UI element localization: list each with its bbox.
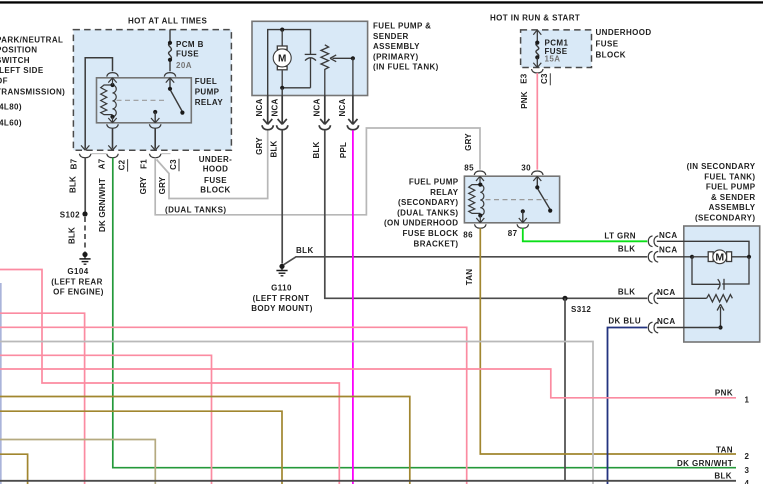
svg-text:NCA: NCA	[657, 317, 676, 326]
fuel pump relay box U1	[97, 78, 192, 123]
svg-text:OF: OF	[0, 76, 8, 85]
connector label C3	[540, 73, 550, 85]
wire PNK ladder 3	[0, 327, 467, 484]
svg-text:NCA: NCA	[659, 245, 678, 254]
svg-text:(4L60): (4L60)	[0, 119, 22, 128]
svg-text:GRY: GRY	[255, 137, 264, 155]
svg-text:NCA: NCA	[338, 99, 347, 117]
svg-text:C3: C3	[169, 159, 178, 170]
svg-text:C2: C2	[117, 159, 126, 170]
connector arcs above relay2 (pins 85, 30)	[474, 171, 543, 175]
svg-text:PNK: PNK	[715, 389, 733, 398]
svg-text:NCA: NCA	[271, 99, 280, 117]
relay coil (primary)	[101, 83, 117, 119]
wire TAN ladder 2	[0, 411, 282, 484]
svg-text:TRANSMISSION): TRANSMISSION)	[0, 87, 65, 96]
splice node S102	[60, 210, 88, 219]
svg-text:E3: E3	[520, 73, 529, 84]
svg-text:NCA: NCA	[659, 231, 678, 240]
svg-text:NCA: NCA	[657, 288, 676, 297]
svg-text:(LEFT FRONT: (LEFT FRONT	[253, 294, 310, 303]
svg-text:(ON UNDERHOOD: (ON UNDERHOOD	[384, 219, 459, 228]
svg-text:FUSE: FUSE	[176, 50, 199, 59]
svg-text:HOT IN RUN & START: HOT IN RUN & START	[490, 14, 580, 23]
svg-text:M: M	[278, 54, 286, 65]
connector arc below PCM1 fuse block	[532, 69, 544, 73]
svg-text:B7: B7	[69, 158, 78, 169]
capacitor C1 (primary pump)	[305, 54, 317, 87]
internal wire row2 to motor negative	[657, 255, 694, 259]
ground G104	[79, 252, 90, 264]
label G110 (LEFT FRONT BODY MOUNT)	[251, 284, 313, 314]
wire BLK B7 to S102	[84, 158, 86, 212]
svg-text:4: 4	[745, 479, 750, 484]
motor M1 (primary pump)	[273, 30, 291, 88]
svg-text:UNDERHOOD: UNDERHOOD	[596, 28, 652, 37]
pin arrows + arcs at relay1 bottom	[107, 117, 161, 149]
top border frame line	[0, 1, 763, 3]
svg-text:BLK: BLK	[714, 471, 732, 480]
svg-text:BODY MOUNT): BODY MOUNT)	[251, 304, 313, 313]
svg-text:GRY: GRY	[158, 176, 167, 194]
svg-text:BLK: BLK	[312, 141, 321, 158]
svg-text:15A: 15A	[545, 55, 561, 64]
svg-text:POSITION: POSITION	[0, 46, 37, 55]
wire BLK pump1 sender low to S312 and secondary pump (row 3)	[325, 130, 648, 298]
svg-text:BLOCK: BLOCK	[200, 186, 230, 195]
svg-text:HOT AT ALL TIMES: HOT AT ALL TIMES	[128, 17, 208, 26]
svg-text:BRACKET): BRACKET)	[414, 239, 459, 248]
wire PNK to right edge terminal 1	[0, 369, 736, 398]
svg-text:PPL: PPL	[339, 142, 348, 158]
wire BLK pump1 motor negative to G110	[281, 130, 283, 263]
relay2 internal dashed line	[486, 199, 549, 201]
svg-text:ASSEMBLY: ASSEMBLY	[709, 203, 756, 212]
fuel level sender resistor (secondary)	[657, 295, 733, 302]
fuel pump relay secondary box U2	[464, 176, 559, 223]
svg-text:DK GRN/WHT: DK GRN/WHT	[98, 178, 107, 232]
label PCM B FUSE 20A	[176, 40, 204, 70]
label PCM1 FUSE 15A	[545, 39, 569, 64]
svg-text:BLK: BLK	[618, 245, 636, 254]
wire SILVER ladder	[0, 342, 593, 484]
label PARK/NEUTRAL POSITION SWITCH block	[0, 36, 65, 128]
fuel level sender resistor (primary)	[321, 45, 329, 96]
pin arrows at relay2 bottom (86, 87)	[476, 216, 527, 223]
svg-text:FUEL TANK): FUEL TANK)	[704, 172, 755, 181]
wire DK BLU row4 connector arcs	[648, 322, 658, 333]
svg-text:RELAY: RELAY	[430, 188, 459, 197]
connector label C3	[169, 159, 179, 171]
svg-text:M: M	[715, 251, 724, 263]
label FUEL PUMP RELAY (SECONDARY) ...	[384, 178, 459, 249]
svg-text:OF ENGINE): OF ENGINE)	[53, 288, 104, 297]
svg-text:(4L80): (4L80)	[0, 103, 22, 112]
svg-text:BLK: BLK	[69, 176, 78, 193]
connector arcs below relay2	[475, 224, 529, 228]
svg-text:(SECONDARY): (SECONDARY)	[398, 198, 459, 207]
wire BLK row3 connector arcs	[648, 293, 658, 304]
svg-text:DK GRN/WHT: DK GRN/WHT	[677, 459, 733, 468]
sender wiper arrow (primary)	[330, 55, 355, 96]
svg-text:85: 85	[464, 164, 474, 173]
pin arrows at relay1 top	[108, 78, 174, 85]
label UNDER- HOOD FUSE BLOCK	[199, 155, 233, 195]
svg-text:(LEFT REAR: (LEFT REAR	[51, 277, 103, 286]
svg-text:(DUAL TANKS): (DUAL TANKS)	[397, 208, 458, 217]
wire PPL pump1 sender signal down off page	[352, 130, 354, 484]
underhood fuse block (right, dashed)	[521, 30, 592, 68]
sender wiper arrow (secondary)	[717, 304, 724, 329]
svg-text:FUEL PUMP &: FUEL PUMP &	[373, 22, 431, 31]
svg-text:HOOD: HOOD	[203, 165, 229, 174]
svg-text:SENDER: SENDER	[373, 32, 409, 41]
underhood fuse block (left, dashed)	[73, 30, 231, 151]
svg-text:FUEL: FUEL	[195, 77, 218, 86]
fuse PCM B 20A	[168, 30, 172, 72]
fuel pump & sender assembly secondary box	[684, 226, 760, 342]
wire BLK row2 connector arcs	[648, 251, 658, 262]
svg-text:20A: 20A	[176, 61, 192, 70]
svg-text:PARK/NEUTRAL: PARK/NEUTRAL	[0, 36, 63, 45]
fuel pump & sender assembly primary box	[252, 21, 368, 95]
wire PNK ladder 2	[0, 313, 85, 484]
svg-text:F1: F1	[139, 159, 148, 169]
splice node S312	[562, 296, 591, 314]
connector arcs row1 LT GRN / NCA	[648, 236, 658, 247]
svg-text:TAN: TAN	[716, 445, 733, 454]
wire LT GRN pin 87 to secondary pump	[523, 228, 648, 241]
svg-text:C3: C3	[540, 73, 549, 84]
svg-text:FUSE: FUSE	[204, 176, 227, 185]
relay switch (primary)	[153, 78, 184, 123]
svg-text:TAN: TAN	[465, 269, 474, 285]
relay coil (secondary)	[469, 183, 484, 218]
svg-text:G104: G104	[67, 267, 88, 276]
svg-text:(DUAL TANKS): (DUAL TANKS)	[165, 206, 226, 215]
label FUEL PUMP & SENDER ASSEMBLY (PRIMARY) (IN FUEL TANK)	[373, 22, 439, 72]
svg-text:BLOCK: BLOCK	[596, 50, 626, 59]
svg-text:(IN SECONDARY: (IN SECONDARY	[687, 162, 756, 171]
motor M2 (secondary pump)	[692, 250, 751, 264]
svg-text:ASSEMBLY: ASSEMBLY	[373, 42, 420, 51]
svg-text:BLK: BLK	[68, 227, 77, 244]
wire DK GRN/WHT A7 down and to right edge terminal 3	[113, 158, 736, 468]
svg-text:NCA: NCA	[255, 99, 264, 117]
wire PNK ladder 1	[0, 270, 339, 484]
svg-text:30: 30	[521, 164, 531, 173]
svg-text:FUEL PUMP: FUEL PUMP	[409, 178, 459, 187]
svg-text:FUSE: FUSE	[596, 40, 619, 49]
label (IN SECONDARY FUEL TANK) FUEL PUMP & SENDER ASSEMBLY (SECONDARY)	[687, 162, 756, 223]
svg-text:G110: G110	[271, 284, 292, 293]
relay internal dashed line	[117, 99, 167, 101]
pump1 wire stubs below box with arrows and connector arcs	[262, 96, 359, 130]
svg-text:(SECONDARY): (SECONDARY)	[695, 214, 756, 223]
svg-text:GRY: GRY	[464, 133, 473, 151]
svg-text:RELAY: RELAY	[195, 98, 224, 107]
svg-text:BLK: BLK	[270, 140, 279, 157]
wire TAN light ladder 3	[0, 440, 155, 484]
wire BLK dashed S102 to G104	[84, 217, 86, 252]
ground G110	[276, 264, 287, 276]
connector label C2	[117, 159, 127, 171]
svg-text:S312: S312	[571, 305, 591, 314]
label FUEL PUMP RELAY	[195, 77, 224, 107]
svg-text:FUEL PUMP: FUEL PUMP	[706, 183, 756, 192]
wire BLK S312 down to bottom bus	[564, 298, 566, 481]
wire PNK ladder 4	[0, 355, 212, 484]
svg-text:86: 86	[463, 230, 473, 239]
svg-text:DK BLU: DK BLU	[608, 317, 641, 326]
svg-text:S102: S102	[60, 210, 80, 219]
connector arcs above relay1	[107, 73, 176, 77]
wire GRY F1 diagonal branch to primary pump	[157, 130, 268, 198]
svg-text:PUMP: PUMP	[195, 87, 220, 96]
internal wire row1 to motor positive	[657, 241, 749, 256]
fuse PCM1 15A	[533, 30, 541, 68]
svg-text:SWITCH: SWITCH	[0, 56, 30, 65]
wire LAVENDER vertical off-page	[0, 283, 2, 484]
svg-text:1: 1	[745, 395, 750, 404]
wire PNK fuse to relay pin 30	[536, 73, 538, 170]
internal wire pump1 bottom bus	[280, 86, 310, 96]
relay switch (secondary)	[521, 176, 553, 223]
label UNDERHOOD FUSE BLOCK	[596, 28, 652, 59]
internal wire pump1 top bus	[268, 28, 311, 96]
svg-text:NCA: NCA	[312, 99, 321, 117]
svg-text:LT GRN: LT GRN	[604, 232, 636, 241]
svg-text:& SENDER: & SENDER	[711, 193, 756, 202]
svg-text:PCM B: PCM B	[176, 40, 204, 49]
svg-text:2: 2	[745, 452, 750, 461]
wire BLK G110 to secondary pump (row 2)	[284, 257, 648, 265]
svg-text:(LEFT SIDE: (LEFT SIDE	[0, 66, 44, 75]
svg-text:87: 87	[508, 229, 518, 238]
wire from coil top over box to B7	[85, 58, 112, 149]
svg-text:(IN FUEL TANK): (IN FUEL TANK)	[373, 63, 439, 72]
wire BLK bottom bus to terminal 4	[0, 480, 736, 482]
svg-text:BLK: BLK	[618, 288, 636, 297]
svg-text:(PRIMARY): (PRIMARY)	[373, 52, 419, 61]
label G104 (LEFT REAR OF ENGINE)	[51, 267, 104, 297]
wire DK BLU down off page	[608, 328, 648, 484]
svg-text:A7: A7	[98, 158, 107, 169]
wire GRY F1 straight branch to secondary relay pin 85	[155, 128, 480, 215]
capacitor C2 (secondary pump, parallel with motor)	[692, 257, 749, 290]
pin arrows at relay2 top	[476, 176, 541, 184]
internal wire row4 to sender wiper	[657, 327, 721, 329]
connector arcs below fuse block (C2 / C3)	[79, 154, 170, 158]
svg-text:3: 3	[745, 466, 750, 475]
svg-text:PNK: PNK	[520, 91, 529, 109]
wire TAN pin 86 down to right edge terminal 2	[480, 228, 736, 454]
wire exit arrows at fuse block bottom edge	[81, 145, 159, 150]
wire TAN ladder 1	[0, 397, 410, 484]
svg-text:BLK: BLK	[296, 246, 314, 255]
svg-text:UNDER-: UNDER-	[199, 155, 233, 164]
svg-text:FUSE BLOCK: FUSE BLOCK	[403, 229, 459, 238]
wire TAN ladder 4	[0, 454, 28, 484]
svg-text:GRY: GRY	[139, 176, 148, 194]
